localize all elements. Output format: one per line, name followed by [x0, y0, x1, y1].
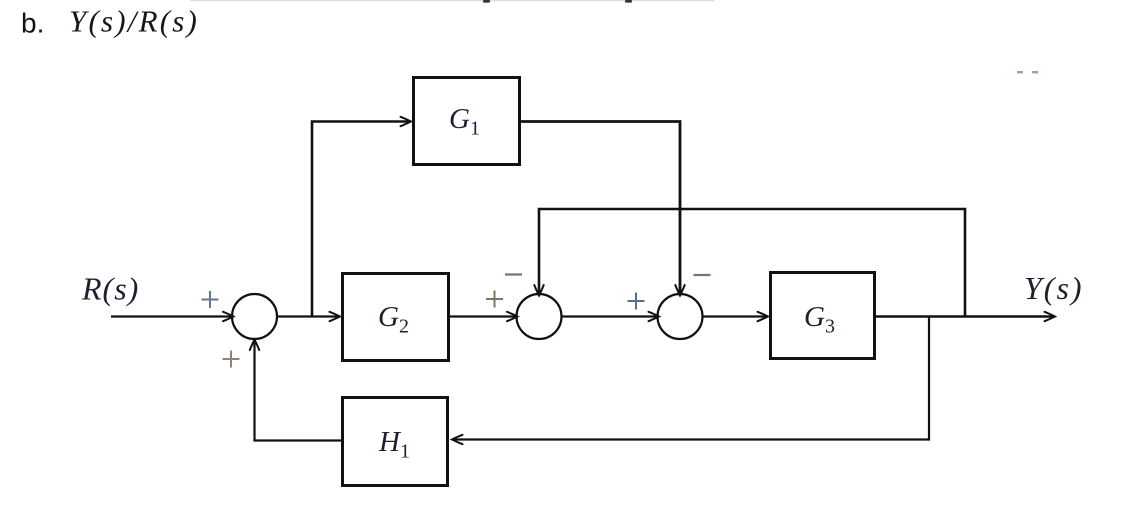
wire: G2 output to summing junction S2 [450, 315, 517, 317]
wire: G3 output to Y(s) [876, 315, 1055, 317]
block G1 [414, 78, 520, 165]
svg-text:Y(s): Y(s) [1024, 270, 1084, 306]
summing junction S1 [232, 294, 277, 339]
plus sign at S1 left input [202, 291, 219, 308]
wire: output node down and left into H1 [453, 317, 930, 440]
block G3 [771, 273, 875, 359]
wire: G1 output down to summing junction S3 [521, 122, 680, 296]
wire: R(s) input to summing junction S1 [111, 315, 233, 317]
block G2 [343, 274, 449, 361]
svg-text:Y(s)/R(s): Y(s)/R(s) [69, 4, 199, 39]
cropped text remnant line at top edge [190, 0, 715, 1]
wire: branch from S1 output up to G1 input [312, 122, 411, 317]
minus sign at S3 top input [694, 274, 711, 276]
wire: H1 output up into S1 (positive) [255, 340, 342, 441]
plus sign at S3 left input [628, 293, 645, 310]
wire: feedback from output node down into S2 (negative) [539, 209, 965, 317]
svg-text:b.: b. [21, 8, 44, 39]
plus sign at S2 left input [486, 291, 503, 308]
small artifact dots top right [1017, 71, 1023, 73]
summing junction S2 [517, 294, 562, 339]
minus sign at S2 top input [505, 273, 522, 275]
plus sign at S1 bottom input [223, 351, 240, 368]
summing junction S3 [658, 294, 703, 339]
svg-text:R(s): R(s) [81, 271, 139, 307]
block H1 [343, 398, 448, 486]
wire: S2 to summing junction S3 [562, 315, 659, 317]
wire: S1 output to G2 [277, 315, 340, 317]
wire: S3 to G3 [703, 315, 768, 317]
